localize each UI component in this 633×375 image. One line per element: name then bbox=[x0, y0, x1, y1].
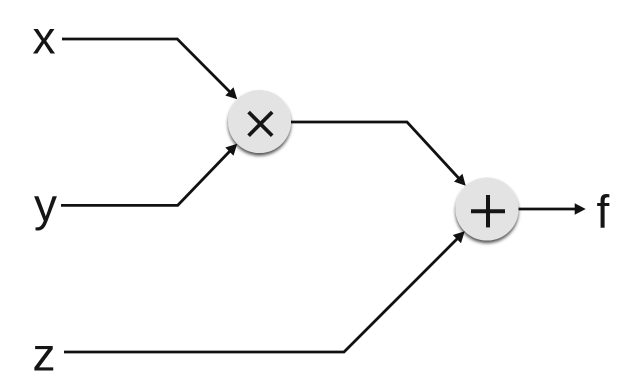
wire multiplier to adder bbox=[291, 122, 466, 186]
multiply symbol bbox=[249, 112, 273, 136]
svg-text:y: y bbox=[34, 179, 57, 231]
multiplier node U1 (circle) bbox=[228, 90, 291, 153]
plus symbol bbox=[471, 195, 505, 227]
wire adder to f bbox=[519, 203, 586, 215]
adder node U2 (circle) bbox=[456, 178, 519, 241]
svg-text:z: z bbox=[33, 329, 56, 375]
wire y to multiplier bbox=[61, 144, 237, 206]
svg-text:f: f bbox=[597, 186, 610, 238]
wire x to multiplier bbox=[62, 39, 237, 99]
wire z to adder bbox=[64, 231, 465, 352]
svg-text:x: x bbox=[33, 12, 56, 64]
